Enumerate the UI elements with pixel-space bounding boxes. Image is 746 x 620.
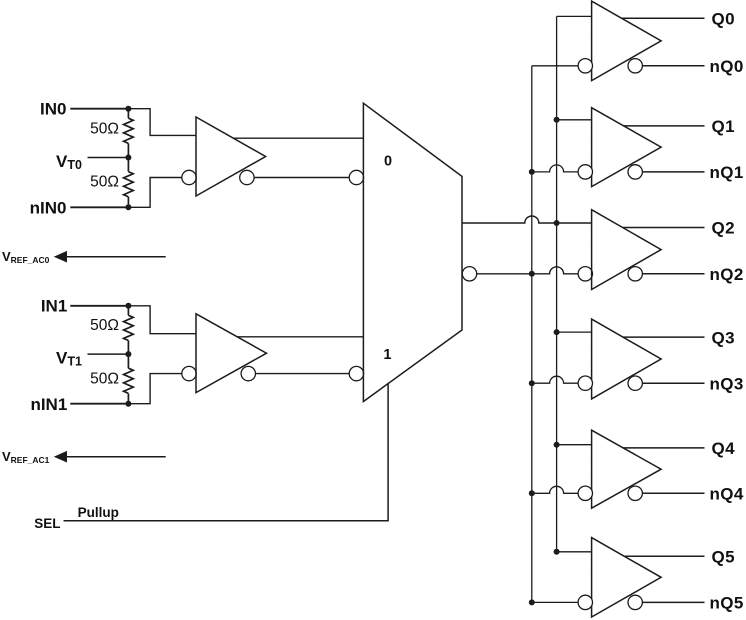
svg-text:nQ4: nQ4 (710, 485, 744, 504)
svg-text:1: 1 (383, 347, 391, 363)
svg-text:0: 0 (384, 154, 392, 170)
svg-text:Q4: Q4 (712, 439, 736, 458)
svg-text:SEL: SEL (34, 516, 60, 531)
svg-text:nQ1: nQ1 (710, 163, 744, 182)
svg-text:nIN0: nIN0 (30, 198, 67, 217)
svg-text:nQ5: nQ5 (710, 594, 744, 613)
svg-text:50Ω: 50Ω (90, 317, 119, 334)
svg-text:50Ω: 50Ω (90, 174, 119, 191)
svg-text:nQ3: nQ3 (710, 374, 744, 393)
svg-text:Q2: Q2 (712, 219, 735, 238)
svg-text:IN0: IN0 (40, 100, 66, 119)
svg-text:nQ2: nQ2 (710, 265, 744, 284)
svg-text:Q0: Q0 (712, 9, 735, 28)
svg-text:Pullup: Pullup (78, 505, 119, 520)
svg-text:IN1: IN1 (41, 297, 67, 316)
svg-text:Q5: Q5 (712, 548, 735, 567)
svg-text:Q1: Q1 (712, 117, 735, 136)
svg-text:Q3: Q3 (712, 328, 735, 347)
svg-text:nIN1: nIN1 (30, 395, 67, 414)
svg-text:50Ω: 50Ω (90, 120, 119, 137)
svg-text:50Ω: 50Ω (90, 370, 119, 387)
svg-text:nQ0: nQ0 (710, 57, 744, 76)
